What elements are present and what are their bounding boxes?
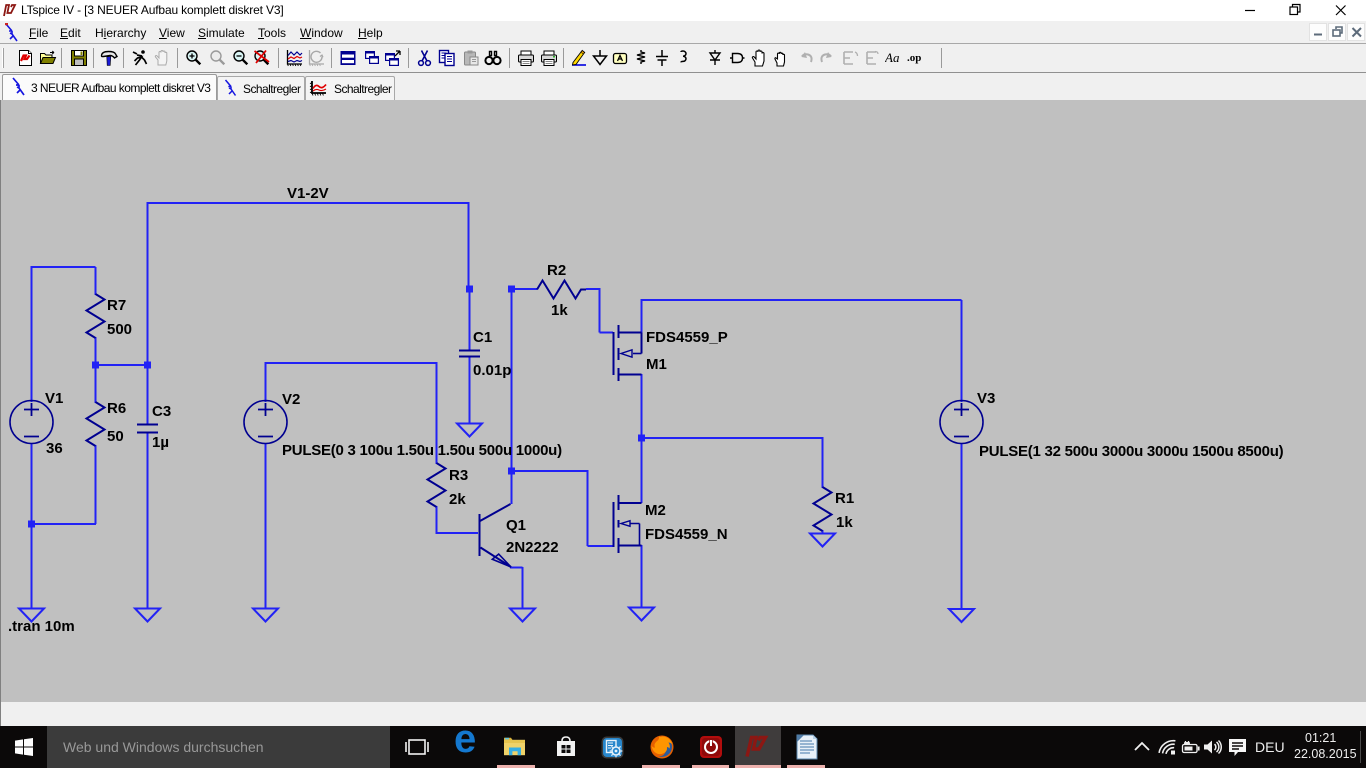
svg-text:PULSE(1 32 500u 3000u 3000u 15: PULSE(1 32 500u 3000u 3000u 1500u 8500u) (979, 443, 1284, 460)
wire M2 gate drop (587, 470, 589, 546)
store (554, 735, 578, 759)
svg-text:.op: .op (907, 52, 921, 64)
junction node R2 left (508, 286, 515, 293)
wire R1 top (822, 437, 824, 488)
tray battery (1181, 740, 1200, 754)
junction node C1 top (466, 286, 473, 293)
svg-text:1µ: 1µ (152, 434, 169, 451)
resistor R2 (537, 281, 586, 299)
svg-text:1k: 1k (551, 302, 568, 319)
svg-text:V3: V3 (977, 390, 995, 407)
wire R3 top drop (436, 362, 438, 464)
firefox (650, 735, 674, 759)
tray message (1228, 738, 1247, 758)
wire R6 top stub (95, 365, 97, 403)
wire output node to R1 (642, 437, 823, 439)
ground C1 (457, 424, 482, 437)
ground V2 (253, 609, 278, 622)
junction node output (638, 435, 645, 442)
svg-text:PULSE(0 3 100u 1.50u 1.50u 500: PULSE(0 3 100u 1.50u 1.50u 500u 1000u) (282, 442, 562, 459)
wire R2 corner drop (599, 288, 601, 333)
svg-text:Q1: Q1 (506, 517, 526, 534)
start button (15, 738, 33, 756)
wire V3 top drop (961, 300, 963, 402)
wire R3 bottom stub (436, 506, 438, 534)
ground V1 (19, 609, 44, 622)
svg-text:R2: R2 (547, 262, 566, 279)
svg-text:M1: M1 (646, 356, 667, 373)
svg-text:R7: R7 (107, 297, 126, 314)
wire V3 bottom (961, 443, 963, 609)
svg-text:V2: V2 (282, 391, 300, 408)
svg-text:C1: C1 (473, 329, 492, 346)
MDI child window buttons (1309, 23, 1365, 41)
svg-text:2k: 2k (449, 491, 466, 508)
wire C3 top drop (147, 202, 149, 424)
junction node V1 bottom (28, 521, 35, 528)
junction node R7-R6 (92, 362, 99, 369)
app mini icon (4, 23, 19, 42)
resistor R3 (428, 463, 446, 507)
svg-text:C3: C3 (152, 403, 171, 420)
ground Q1 emitter (510, 609, 535, 622)
voltage source V3 (940, 401, 983, 444)
svg-text:1k: 1k (836, 514, 853, 531)
ground M2 source (629, 608, 654, 621)
wire V2 top horizontal (265, 362, 437, 364)
wire R7 bottom stub (95, 337, 97, 366)
wire C3 bottom (147, 433, 149, 608)
svg-text:R1: R1 (835, 490, 854, 507)
svg-text:Aa: Aa (885, 50, 900, 65)
svg-text:500: 500 (107, 321, 132, 338)
DEU (1255, 739, 1285, 755)
wire C1 bottom (469, 356, 471, 423)
svg-text:R3: R3 (449, 467, 468, 484)
voltage source V2 (244, 401, 287, 444)
settings-tool blue icon (601, 736, 624, 759)
wire V2 bottom (265, 443, 267, 608)
schematic canvas background (0, 100, 1366, 702)
wire R3 to Q1 base (437, 532, 479, 534)
folder (503, 737, 526, 757)
transistor M2 (613, 502, 615, 547)
wire top rail right drop to node (468, 202, 470, 289)
svg-text:R6: R6 (107, 400, 126, 417)
writer document (795, 734, 819, 760)
capacitor C3 (137, 425, 158, 433)
wire Q1 collector riser (511, 288, 513, 504)
transistor M1 (613, 332, 615, 375)
wire node to R2 (512, 288, 538, 290)
wire output node to M2 drain (641, 438, 643, 503)
resistor R7 (87, 294, 105, 338)
wire node R7R6 to C3 (96, 364, 148, 366)
wire M1 source to output node (641, 374, 643, 438)
tray wifi (1158, 739, 1177, 755)
svg-text:M2: M2 (645, 502, 666, 519)
wire V1 top vertical (31, 266, 33, 402)
wire V1 bottom vertical (31, 443, 33, 608)
power red app (699, 735, 723, 759)
svg-text:V1-2V: V1-2V (287, 185, 329, 202)
svg-text:FDS4559_P: FDS4559_P (646, 329, 728, 346)
window min/restore/close (1244, 0, 1356, 21)
wire V1 bottom to R6 (32, 523, 97, 525)
wire C1 top (469, 288, 471, 351)
resistor R6 (87, 402, 105, 446)
ground C3 (135, 609, 160, 622)
tray speaker (1203, 739, 1223, 755)
wire to M1 gate (600, 332, 614, 334)
wire R2 to corner (586, 288, 600, 290)
open-app indicator bars (497, 765, 535, 768)
svg-text:FDS4559_N: FDS4559_N (645, 526, 728, 543)
wire R7 top stub (95, 267, 97, 295)
ground V3 (949, 609, 974, 622)
svg-text:0.01p: 0.01p (473, 362, 511, 379)
LTspice active app cell (735, 726, 781, 768)
wire R6 bottom to corner (95, 445, 97, 524)
ground R1 (810, 534, 835, 547)
edge (454, 717, 480, 757)
tray chevron (1133, 741, 1151, 753)
LTspice logo (3, 4, 17, 17)
task view (404, 735, 430, 759)
wire M1 drain rail to V3 (642, 299, 962, 301)
resistor R1 (814, 487, 832, 531)
wire M2 source to ground (641, 545, 643, 608)
capacitor C1 (459, 351, 480, 357)
clock (1305, 731, 1336, 745)
wire V1 top horizontal (31, 266, 96, 268)
wire Q1 emitter horizontal (510, 567, 523, 569)
wire M1 drain stub (641, 299, 643, 333)
transistor Q1 (479, 514, 481, 556)
wire V2 top vertical (265, 362, 267, 402)
svg-text:50: 50 (107, 428, 124, 445)
voltage source V1 (10, 401, 53, 444)
junction node Q1 collector (508, 468, 515, 475)
svg-text:36: 36 (46, 440, 63, 457)
svg-text:2N2222: 2N2222 (506, 539, 559, 556)
wire Q1 emitter to ground (522, 567, 524, 608)
junction node C3 tap (144, 362, 151, 369)
svg-text:V1: V1 (45, 390, 63, 407)
wire M2 gate lead-in (588, 545, 614, 547)
wire top rail V1-2V horizontal (148, 202, 469, 204)
wire R1 bottom stub (822, 530, 824, 534)
svg-text:.tran 10m: .tran 10m (8, 618, 75, 635)
wire node to M2 gate horizontal (512, 470, 588, 472)
